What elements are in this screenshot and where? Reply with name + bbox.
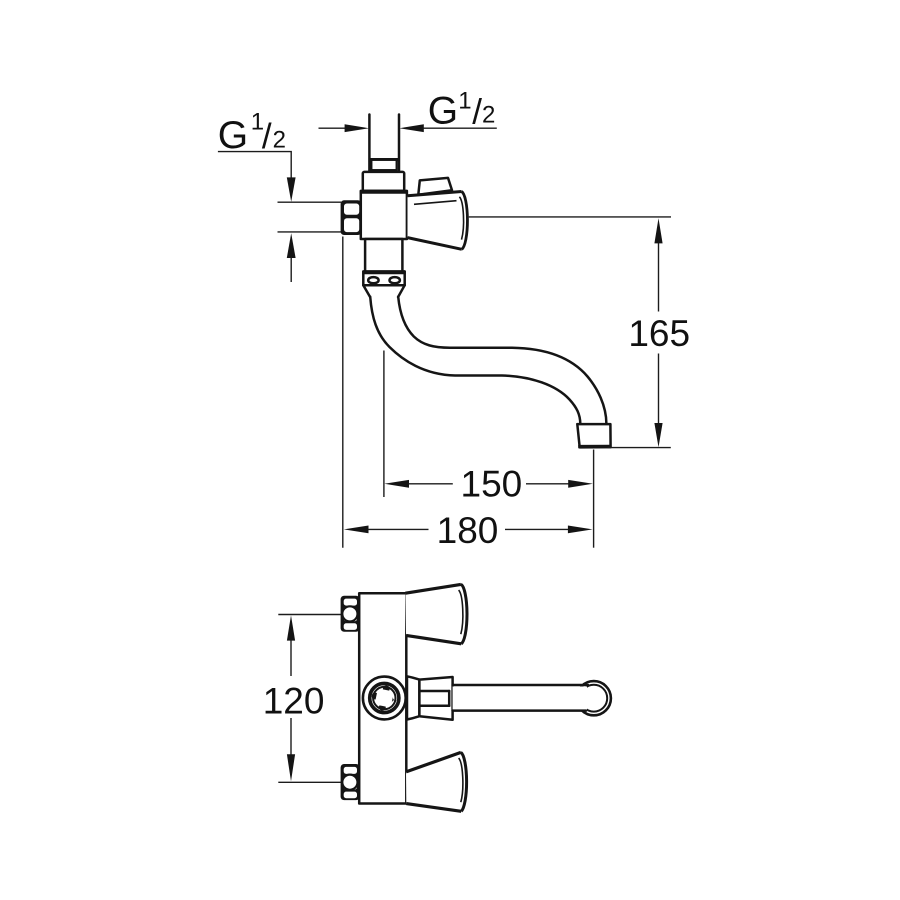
bottom handle cone plan <box>406 752 467 811</box>
S-spout tube <box>370 297 606 424</box>
svg-text:2: 2 <box>273 126 286 153</box>
handle reference line right <box>469 216 671 218</box>
top handle cone plan <box>405 584 467 644</box>
wall hex nut (side view) <box>341 200 362 235</box>
svg-text:G: G <box>428 90 458 133</box>
down arrow to wall line <box>287 177 296 201</box>
aerator reference line <box>608 447 671 449</box>
120 reference line top <box>278 614 341 616</box>
svg-text:165: 165 <box>628 313 690 354</box>
aerator <box>577 424 611 447</box>
spout taper <box>363 285 404 297</box>
svg-text:/: / <box>262 117 272 156</box>
handle top button <box>418 178 452 195</box>
label G 1/2 right <box>428 87 496 132</box>
handle cone <box>408 191 468 249</box>
mounting screw <box>363 677 406 720</box>
svg-text:G: G <box>218 114 248 157</box>
svg-text:/: / <box>472 93 482 132</box>
up arrow below wall line <box>287 233 296 282</box>
dimension 165 vertical <box>628 218 690 447</box>
inlet pipe <box>369 115 399 171</box>
leader line G1/2 left <box>218 152 291 179</box>
svg-text:1: 1 <box>458 87 471 114</box>
top hex nut plan <box>341 596 360 632</box>
lower valve body <box>365 239 402 273</box>
bonnet box <box>363 172 404 191</box>
upper valve body <box>360 191 408 239</box>
120 reference line bottom <box>278 781 341 783</box>
wall reference line lower <box>278 231 342 233</box>
pipe width dimension arrows <box>319 124 497 132</box>
wall reference line upper <box>278 201 342 203</box>
spout flange with screws <box>362 271 405 285</box>
bottom hex nut plan <box>341 764 360 800</box>
svg-text:180: 180 <box>437 510 499 551</box>
spout tube plan with end circle <box>453 681 611 715</box>
svg-text:2: 2 <box>482 102 495 129</box>
pipe collar nut <box>369 160 400 171</box>
spout adapter nut plan <box>407 676 453 720</box>
svg-text:150: 150 <box>461 464 523 505</box>
main body plan <box>359 593 406 803</box>
svg-text:120: 120 <box>263 680 325 721</box>
dimension 180 horizontal <box>343 237 594 552</box>
dimension 150 horizontal <box>384 351 593 505</box>
label G 1/2 left <box>218 108 286 156</box>
dimension 120 vertical <box>263 615 325 781</box>
